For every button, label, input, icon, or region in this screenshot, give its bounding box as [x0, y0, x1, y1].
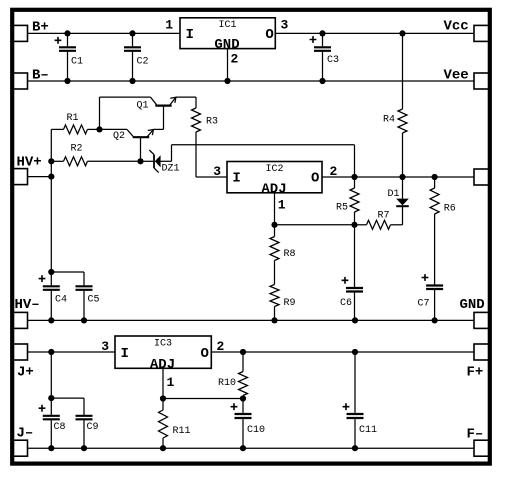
- resistor R1: [51, 113, 99, 134]
- terminal F-: [467, 427, 491, 457]
- terminal GND: [460, 297, 491, 328]
- svg-text:D1: D1: [388, 189, 400, 200]
- wire IC1 output to Vcc: [275, 32, 474, 34]
- svg-text:IC2: IC2: [265, 164, 283, 175]
- terminal Vcc: [444, 19, 491, 42]
- wire C4-C5 link: [51, 271, 84, 273]
- wire IC3 pin1 drop: [162, 368, 164, 398]
- op-amp U2 regulator IC2 box: [227, 162, 322, 198]
- resistor R8: [270, 225, 296, 285]
- resistor R10: [218, 352, 248, 399]
- node C2 top: [129, 30, 135, 36]
- terminal HV+: [12, 155, 42, 185]
- svg-text:IC1: IC1: [218, 20, 236, 31]
- wire HV- rail: [28, 319, 475, 321]
- capacitor C4: [39, 272, 67, 320]
- wire IC2 pin1 drop: [274, 193, 276, 225]
- svg-text:C4: C4: [55, 295, 67, 306]
- node Q2 base: [137, 158, 143, 164]
- svg-text:C8: C8: [54, 422, 66, 433]
- node C6 bottom: [352, 317, 358, 323]
- resistor R3: [192, 97, 219, 177]
- resistor R4: [383, 33, 407, 177]
- capacitor C2: [124, 33, 149, 81]
- terminal J+: [12, 344, 34, 381]
- svg-text:2: 2: [231, 52, 239, 67]
- svg-text:R6: R6: [444, 204, 456, 215]
- node HV+ junction: [48, 174, 54, 180]
- node R9 bottom: [271, 317, 277, 323]
- terminal F+: [467, 344, 491, 381]
- resistor R11: [159, 399, 191, 449]
- svg-text:C10: C10: [247, 425, 265, 436]
- pin 1 IC3: [167, 375, 175, 390]
- wire J- rail: [28, 447, 475, 449]
- wire IC1 pin2 to B- rail: [227, 49, 229, 81]
- terminal J-: [12, 426, 34, 457]
- capacitor C6: [340, 225, 363, 321]
- capacitor C3: [310, 33, 339, 81]
- node R1 right: [96, 126, 102, 132]
- node pin1/R8: [271, 222, 277, 228]
- wire IC3 output rail: [211, 351, 474, 353]
- op-amp U3 regulator IC3 box: [115, 336, 211, 373]
- svg-text:R5: R5: [336, 203, 348, 214]
- svg-text:I: I: [232, 171, 240, 187]
- wire J+ to IC3: [28, 351, 116, 353]
- svg-text:Vcc: Vcc: [444, 19, 469, 35]
- svg-text:DZ1: DZ1: [162, 164, 180, 175]
- wire Q2 emitter to Q1 base: [153, 128, 163, 130]
- node C11 top: [352, 349, 358, 355]
- node R6 top: [432, 174, 438, 180]
- pin 2 IC2: [330, 164, 338, 179]
- node C1 top: [64, 30, 70, 36]
- capacitor C10: [231, 399, 265, 449]
- svg-text:R8: R8: [284, 249, 296, 260]
- svg-text:O: O: [265, 27, 273, 43]
- capacitor C5: [76, 272, 100, 320]
- node J+ junction: [48, 349, 54, 355]
- pin 1 IC2: [278, 198, 286, 213]
- wire adj rail IC3: [163, 398, 243, 400]
- node C9 bottom: [81, 445, 87, 451]
- node C3 bottom: [319, 78, 325, 84]
- capacitor C8: [39, 398, 66, 448]
- node C7 bottom: [432, 317, 438, 323]
- zener DZ1: [141, 150, 180, 175]
- terminal B+: [12, 20, 49, 42]
- svg-text:C11: C11: [359, 425, 377, 436]
- svg-text:R3: R3: [206, 117, 218, 128]
- svg-text:3: 3: [281, 18, 289, 33]
- capacitor C9: [76, 398, 99, 448]
- wire feedback down to output: [354, 145, 356, 177]
- svg-text:C9: C9: [87, 422, 99, 433]
- svg-text:Q2: Q2: [113, 131, 125, 142]
- svg-text:GND: GND: [460, 297, 485, 313]
- svg-text:3: 3: [213, 164, 221, 179]
- svg-text:F–: F–: [467, 427, 484, 443]
- pin 1 IC1: [165, 18, 173, 33]
- resistor R6: [430, 177, 456, 284]
- wire left drop to R1 node: [99, 97, 101, 129]
- node C3 top: [319, 30, 325, 36]
- node C10 bottom: [240, 445, 246, 451]
- svg-text:O: O: [311, 171, 319, 187]
- transistor Q2: [113, 129, 153, 161]
- svg-text:O: O: [201, 346, 209, 362]
- wire C8 drop: [50, 352, 52, 398]
- terminal B-: [12, 68, 49, 90]
- svg-text:HV–: HV–: [15, 297, 40, 313]
- wire R3 to IC2 input: [196, 176, 227, 178]
- node C4 top: [48, 269, 54, 275]
- pin 3 IC1: [281, 18, 289, 33]
- wire B+ rail left of IC1: [28, 32, 181, 34]
- svg-text:Q1: Q1: [137, 101, 149, 112]
- diode D1: [388, 177, 409, 225]
- svg-text:R10: R10: [218, 378, 236, 389]
- svg-text:IC3: IC3: [154, 338, 172, 349]
- resistor R2: [51, 144, 140, 166]
- svg-text:F+: F+: [467, 365, 484, 381]
- node R10 bottom: [240, 395, 246, 401]
- node IC1 pin2: [224, 78, 230, 84]
- svg-text:R2: R2: [71, 144, 83, 155]
- resistor R7: [355, 211, 403, 230]
- svg-text:C5: C5: [88, 295, 100, 306]
- node R2 left: [48, 158, 54, 164]
- svg-text:C1: C1: [71, 57, 83, 68]
- svg-text:R7: R7: [378, 211, 390, 222]
- node C2 bottom: [129, 78, 135, 84]
- node C5 bottom: [81, 317, 87, 323]
- node C8 top: [48, 395, 54, 401]
- node C8 bottom: [48, 445, 54, 451]
- wire Q2 collector link: [100, 128, 128, 130]
- svg-text:R11: R11: [173, 426, 191, 437]
- svg-text:R4: R4: [383, 115, 395, 126]
- svg-text:R9: R9: [284, 298, 296, 309]
- terminal mid-right: [474, 169, 490, 185]
- terminal HV-: [12, 297, 40, 328]
- capacitor C1: [55, 33, 83, 81]
- wire B- rail: [28, 80, 475, 82]
- svg-text:HV+: HV+: [17, 155, 42, 171]
- node C11 bottom: [352, 445, 358, 451]
- node R10 top: [240, 349, 246, 355]
- wire HV+ vertical: [50, 129, 52, 272]
- svg-text:1: 1: [167, 375, 175, 390]
- node C4 bottom: [48, 317, 54, 323]
- op-amp U1 regulator IC1 box: [180, 18, 275, 53]
- svg-text:C2: C2: [137, 57, 149, 68]
- wire zener feedback up: [171, 145, 173, 162]
- node pin1/R11: [160, 395, 166, 401]
- wire adj rail: [275, 224, 355, 226]
- wire IC2 output rail: [322, 176, 474, 178]
- svg-text:C3: C3: [327, 55, 339, 66]
- node IC2 out / R5: [351, 174, 357, 180]
- capacitor C7: [418, 274, 444, 320]
- node R5 bottom: [351, 222, 357, 228]
- svg-text:R1: R1: [67, 113, 79, 124]
- svg-text:3: 3: [101, 339, 109, 354]
- wire C8-C9 link: [51, 397, 84, 399]
- resistor R5: [336, 177, 359, 225]
- svg-text:C6: C6: [340, 298, 352, 309]
- wire Q1 emitter to R3: [176, 96, 196, 98]
- wire Q1 collector top: [100, 96, 151, 98]
- pin 3 IC3: [101, 339, 109, 354]
- pin 2 IC3: [217, 339, 225, 354]
- transistor Q1: [137, 97, 176, 129]
- svg-text:1: 1: [165, 18, 173, 33]
- node R4 top: [399, 30, 405, 36]
- svg-text:C7: C7: [418, 299, 430, 310]
- svg-text:1: 1: [278, 198, 286, 213]
- resistor R9: [270, 285, 296, 321]
- wire HV+ stub: [28, 176, 52, 178]
- pin 2 IC1: [231, 52, 239, 67]
- pin 3 IC2: [213, 164, 221, 179]
- wire feedback horizontal: [172, 144, 355, 146]
- svg-text:J–: J–: [17, 426, 34, 442]
- node R11 bottom: [160, 445, 166, 451]
- svg-text:I: I: [186, 27, 194, 43]
- svg-text:I: I: [121, 346, 129, 362]
- node D1 top: [399, 174, 405, 180]
- terminal Vee: [444, 68, 491, 90]
- node C1 bottom: [64, 78, 70, 84]
- svg-text:J+: J+: [17, 365, 34, 381]
- capacitor C11: [343, 352, 377, 448]
